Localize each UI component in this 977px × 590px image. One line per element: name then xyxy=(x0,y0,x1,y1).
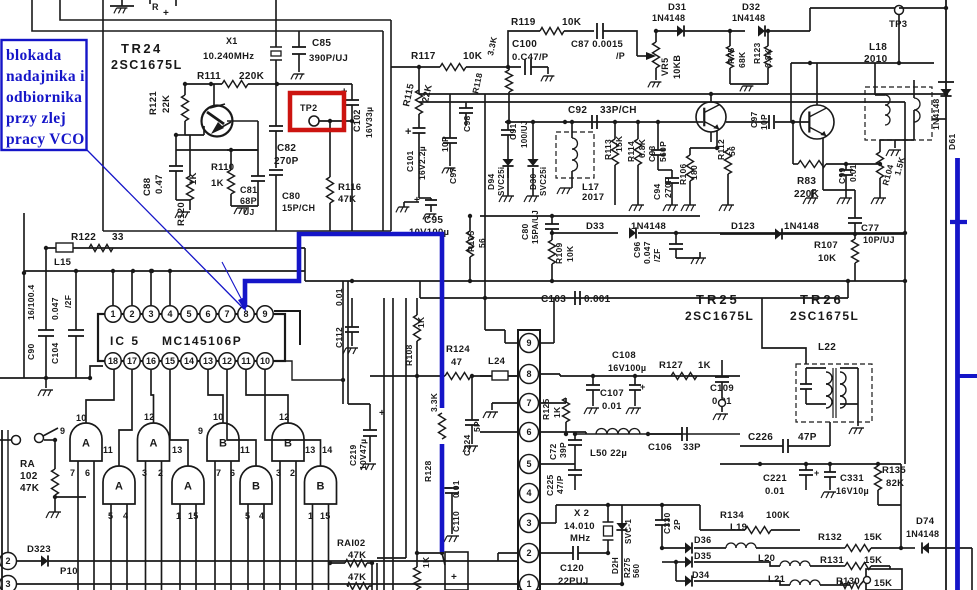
resistor R123 xyxy=(752,31,773,84)
svg-text:39P: 39P xyxy=(558,442,568,458)
wire emitter xyxy=(176,121,258,150)
gate pin labels xyxy=(60,412,333,521)
svg-text:R117: R117 xyxy=(411,51,436,62)
capacitor C100 xyxy=(512,39,549,75)
wire x905 vertical xyxy=(903,102,907,464)
svg-text:TP2: TP2 xyxy=(300,103,317,113)
capacitor C102 xyxy=(341,84,374,231)
IC5 pin 10 xyxy=(257,353,273,369)
ground L22 xyxy=(849,404,864,434)
svg-text:22K: 22K xyxy=(161,95,172,113)
svg-text:68P: 68P xyxy=(240,196,257,206)
svg-text:47: 47 xyxy=(451,357,462,368)
svg-text:D34: D34 xyxy=(692,570,709,580)
IC5 pin 17 xyxy=(124,353,140,369)
wire L22 up xyxy=(762,298,806,364)
capacitor C219 xyxy=(348,404,385,470)
svg-text:/2F: /2F xyxy=(63,295,73,308)
svg-text:18: 18 xyxy=(108,356,118,366)
diode D34 xyxy=(662,560,709,587)
svg-text:10P/UJ: 10P/UJ xyxy=(863,235,895,245)
resistor R130 xyxy=(836,569,902,590)
svg-text:C81: C81 xyxy=(240,185,257,195)
svg-text:2: 2 xyxy=(5,556,10,566)
svg-text:3.3K: 3.3K xyxy=(429,392,439,412)
wire gate2 out xyxy=(151,369,154,423)
wire C77 up xyxy=(822,138,824,190)
wire outer frame A xyxy=(32,0,383,231)
svg-text:9: 9 xyxy=(262,309,267,319)
svg-text:10.240MHz: 10.240MHz xyxy=(203,51,254,62)
connector pin 7 xyxy=(520,394,539,413)
svg-text:3: 3 xyxy=(148,309,153,319)
svg-text:2SC1675L: 2SC1675L xyxy=(111,58,183,72)
svg-text:6: 6 xyxy=(205,309,210,319)
wire bus y584 xyxy=(16,583,518,585)
svg-text:D2H: D2H xyxy=(611,557,620,574)
resistor R110 xyxy=(211,148,235,206)
blue trace pin8 xyxy=(245,234,442,408)
wire gate input bus verticals xyxy=(78,461,329,590)
wire gate7 out xyxy=(227,369,256,466)
inductor L50 xyxy=(590,429,650,459)
capacitor C331 xyxy=(821,464,869,498)
svg-text:15PA/UJ: 15PA/UJ xyxy=(531,210,540,244)
svg-text:L50 22µ: L50 22µ xyxy=(590,448,627,459)
svg-text:11: 11 xyxy=(103,445,113,455)
capacitor C97 10P xyxy=(440,94,458,184)
svg-text:TR26: TR26 xyxy=(800,292,844,307)
wire x420 vertical xyxy=(419,281,421,298)
svg-text:8: 8 xyxy=(243,309,248,319)
crystal X2 xyxy=(564,505,614,553)
svg-text:4: 4 xyxy=(167,309,172,319)
svg-text:1N4148: 1N4148 xyxy=(906,529,939,539)
connector pin 5 xyxy=(520,455,539,474)
diode D123 xyxy=(731,221,819,240)
svg-text:15P/CH: 15P/CH xyxy=(282,203,315,213)
svg-text:9: 9 xyxy=(526,338,531,348)
capacitor C96 xyxy=(632,231,683,264)
capacitor C106 xyxy=(648,427,701,453)
potentiometer VR5 xyxy=(637,31,682,87)
svg-text:IC 5: IC 5 xyxy=(110,334,140,348)
wire x890 vertical xyxy=(889,566,891,569)
svg-text:13: 13 xyxy=(172,445,183,455)
svg-text:7: 7 xyxy=(224,309,229,319)
svg-text:SVC-1: SVC-1 xyxy=(624,519,633,544)
IC5 pin 8 xyxy=(238,306,254,322)
wire bus y271 xyxy=(24,269,305,273)
svg-text:pracy VCO: pracy VCO xyxy=(6,131,85,148)
capacitor C99 xyxy=(837,162,858,204)
capacitor C80b xyxy=(520,210,559,244)
IC5 pin 2 xyxy=(124,306,140,322)
svg-text:16V33µ: 16V33µ xyxy=(364,107,374,138)
capacitor C90 xyxy=(26,248,54,378)
diode D74 xyxy=(901,516,972,590)
capacitor electrolytic bottom xyxy=(442,552,468,590)
svg-text:15: 15 xyxy=(188,511,199,521)
ground R110 C81 xyxy=(231,206,258,214)
svg-text:D35: D35 xyxy=(694,551,711,561)
svg-text:C104: C104 xyxy=(50,342,60,364)
svg-text:TR25: TR25 xyxy=(696,292,740,307)
svg-text:10: 10 xyxy=(213,412,224,422)
svg-text:R111: R111 xyxy=(197,71,221,82)
wire y378 xyxy=(0,366,103,380)
capacitor C120 xyxy=(540,546,610,587)
capacitor C330 xyxy=(655,503,682,548)
resistor R108 xyxy=(404,298,426,553)
ground C90 C104 xyxy=(38,378,53,396)
svg-text:C97: C97 xyxy=(749,112,759,129)
wire pin10 right xyxy=(274,361,345,382)
resistor R114 xyxy=(626,120,647,211)
svg-text:D36: D36 xyxy=(694,535,711,545)
svg-text:0.01: 0.01 xyxy=(848,164,858,182)
svg-text:+: + xyxy=(814,468,820,478)
capacitor C226 xyxy=(740,422,830,453)
svg-text:1: 1 xyxy=(110,309,115,319)
svg-text:0.047: 0.047 xyxy=(642,241,652,264)
svg-text:R83: R83 xyxy=(797,176,816,187)
gate B7 bottom-row xyxy=(240,466,272,504)
transistor TR25 Q xyxy=(690,92,726,148)
resistor R128 xyxy=(423,374,446,482)
capacitor C95 xyxy=(396,195,449,238)
wire pin3 up xyxy=(149,269,172,306)
wire R119 rail xyxy=(508,31,594,67)
capacitor C98 xyxy=(459,102,473,132)
capacitor C110 xyxy=(442,480,461,542)
svg-text:7: 7 xyxy=(70,468,75,478)
svg-text:2P: 2P xyxy=(672,519,682,530)
svg-text:0.047: 0.047 xyxy=(50,297,60,320)
svg-text:11: 11 xyxy=(240,445,250,455)
svg-text:R127: R127 xyxy=(659,360,683,371)
label TR24 xyxy=(111,41,183,72)
resistor 1K bottom xyxy=(414,551,445,590)
capacitor C109 xyxy=(710,360,734,420)
svg-text:R: R xyxy=(152,2,159,12)
svg-text:33P/CH: 33P/CH xyxy=(600,105,637,116)
capacitor C9710P xyxy=(726,63,809,130)
transistor TR24 Q xyxy=(202,84,259,137)
svg-text:P10: P10 xyxy=(60,566,78,577)
wire D32 up xyxy=(810,8,899,31)
wire pin2 stub left xyxy=(498,553,518,561)
svg-text:nadajnika i: nadajnika i xyxy=(6,68,85,85)
label P10 xyxy=(60,566,78,577)
svg-text:15K: 15K xyxy=(874,578,892,589)
label IC5 xyxy=(110,334,242,348)
svg-text:+: + xyxy=(414,195,420,206)
diode D31 xyxy=(652,2,745,37)
inductor L15 xyxy=(54,243,73,268)
wire pin6 stub left xyxy=(480,431,518,433)
svg-text:A: A xyxy=(184,481,192,493)
svg-text:0.47: 0.47 xyxy=(154,174,165,194)
svg-text:560: 560 xyxy=(632,564,641,578)
svg-text:C96: C96 xyxy=(632,242,642,259)
svg-text:7: 7 xyxy=(216,468,221,478)
capacitor C108 xyxy=(608,350,646,414)
wire pin7 stub xyxy=(483,403,518,418)
svg-text:R131: R131 xyxy=(820,555,844,566)
svg-text:2: 2 xyxy=(290,468,295,478)
IC5 pin 16 xyxy=(143,353,159,369)
resistor R135 xyxy=(875,464,907,505)
svg-text:L22: L22 xyxy=(818,342,836,353)
capacitor C221 xyxy=(763,464,820,497)
resistor R113 xyxy=(603,120,624,205)
svg-text:0.001: 0.001 xyxy=(584,294,611,305)
svg-text:R122: R122 xyxy=(71,232,96,243)
resistor R131 xyxy=(820,555,890,570)
gate A2 top-row xyxy=(138,423,170,461)
capacitor C112 xyxy=(334,288,359,354)
ground C95 xyxy=(423,214,437,219)
svg-text:3: 3 xyxy=(5,579,10,589)
capacitor C93 xyxy=(647,120,668,170)
svg-text:C224: C224 xyxy=(462,434,472,456)
svg-text:L21: L21 xyxy=(768,574,786,585)
svg-text:R107: R107 xyxy=(814,240,838,251)
svg-text:10: 10 xyxy=(76,413,87,423)
svg-text:RA: RA xyxy=(20,459,35,470)
resistor R124 xyxy=(370,344,518,380)
label TR25 xyxy=(685,292,754,323)
svg-text:C330: C330 xyxy=(662,512,672,534)
svg-text:12: 12 xyxy=(222,356,232,366)
svg-text:47/P: 47/P xyxy=(555,475,565,494)
wire RA right xyxy=(55,496,86,498)
svg-text:3: 3 xyxy=(142,468,147,478)
ground top edge xyxy=(110,0,134,13)
svg-text:A: A xyxy=(115,481,123,493)
svg-text:D94: D94 xyxy=(486,174,496,191)
svg-text:33: 33 xyxy=(112,232,124,243)
svg-text:C108: C108 xyxy=(612,350,636,361)
label TR26 xyxy=(790,292,859,323)
gate A6 bottom-row xyxy=(172,466,204,504)
red box TP2 xyxy=(290,93,344,130)
test point TP2 xyxy=(300,103,352,126)
capacitor C88 xyxy=(142,133,185,200)
crystal X1 xyxy=(203,0,282,84)
svg-text:4: 4 xyxy=(526,488,531,498)
svg-text:C219: C219 xyxy=(348,444,358,466)
svg-text:2SC1675L: 2SC1675L xyxy=(790,309,859,323)
svg-text:B: B xyxy=(252,481,260,493)
svg-text:10K: 10K xyxy=(565,245,575,262)
wire x24 vertical xyxy=(22,213,26,378)
capacitor C104b xyxy=(50,269,84,378)
svg-text:/ZF: /ZF xyxy=(652,248,662,262)
svg-text:1N4148: 1N4148 xyxy=(652,13,685,23)
svg-text:TR24: TR24 xyxy=(121,41,163,56)
svg-text:10K: 10K xyxy=(818,253,836,264)
svg-text:C106: C106 xyxy=(648,442,672,453)
svg-text:C82: C82 xyxy=(277,143,296,154)
capacitor C224 xyxy=(462,374,482,456)
svg-text:L15: L15 xyxy=(54,257,72,268)
svg-text:D31: D31 xyxy=(668,2,687,13)
wire gate8 out xyxy=(265,369,321,466)
svg-text:0.01: 0.01 xyxy=(765,486,785,497)
wire y464 rail xyxy=(720,462,901,466)
IC5 pin 12 xyxy=(219,353,235,369)
svg-text:C80: C80 xyxy=(282,191,300,202)
svg-text:9: 9 xyxy=(198,426,203,436)
inductor L21 xyxy=(694,574,850,585)
resistor R111 xyxy=(183,71,352,88)
inductor L22 xyxy=(796,342,872,422)
ground C100 xyxy=(541,67,555,81)
wire y505 rail xyxy=(608,504,700,506)
IC5 pin 14 xyxy=(181,353,197,369)
svg-text:A: A xyxy=(82,438,90,450)
svg-text:220K: 220K xyxy=(239,71,265,82)
svg-text:2: 2 xyxy=(158,468,163,478)
svg-text:13: 13 xyxy=(305,445,316,455)
connector pin 4 xyxy=(520,484,539,503)
svg-text:68K: 68K xyxy=(737,51,747,68)
capacitor C87 xyxy=(571,23,637,61)
connector pin 6 xyxy=(520,423,539,442)
inductor L20 xyxy=(694,553,840,566)
svg-text:R119: R119 xyxy=(511,17,536,28)
wire bus y102 xyxy=(419,101,905,103)
svg-text:C85: C85 xyxy=(312,38,331,49)
svg-text:16: 16 xyxy=(146,356,156,366)
wire rail y233 xyxy=(552,232,618,234)
svg-text:1K: 1K xyxy=(421,556,431,568)
svg-text:X1: X1 xyxy=(226,36,238,46)
svg-text:2SC1675L: 2SC1675L xyxy=(685,309,754,323)
wire pin6 right rail xyxy=(540,432,740,434)
diode D33 xyxy=(586,221,905,239)
svg-text:C331: C331 xyxy=(840,473,864,484)
IC5 pin 7 xyxy=(219,306,235,322)
svg-text:14: 14 xyxy=(184,356,194,366)
wire shield left xyxy=(103,0,391,231)
resistor R117 xyxy=(391,51,521,71)
svg-text:10K: 10K xyxy=(463,51,483,62)
wire bus y561 xyxy=(16,560,518,562)
svg-text:C94: C94 xyxy=(652,184,662,201)
blue trace right xyxy=(950,158,977,590)
svg-text:102: 102 xyxy=(20,471,38,482)
wire gate3 out xyxy=(208,369,223,423)
svg-text:14.010: 14.010 xyxy=(564,521,595,532)
svg-text:82K: 82K xyxy=(886,478,904,489)
wire x485 vertical xyxy=(484,94,486,298)
svg-text:+: + xyxy=(405,126,412,138)
test point TP3 xyxy=(889,6,946,64)
wire bus y94 xyxy=(419,93,946,95)
svg-text:D323: D323 xyxy=(27,544,51,555)
resistor R125 xyxy=(540,398,570,436)
svg-text:RAI02: RAI02 xyxy=(337,538,365,549)
svg-text:L18: L18 xyxy=(869,42,887,53)
svg-text:1K: 1K xyxy=(552,406,562,418)
resistor RA102b xyxy=(328,538,377,590)
ground TR24 xyxy=(175,200,190,218)
resistor R105 xyxy=(466,214,487,281)
resistor R107 xyxy=(814,232,859,281)
svg-text:+: + xyxy=(451,572,457,583)
svg-text:+: + xyxy=(163,8,169,19)
svg-text:14: 14 xyxy=(322,445,333,455)
svg-text:SVC25i: SVC25i xyxy=(497,167,506,196)
svg-text:5: 5 xyxy=(526,459,531,469)
svg-text:2: 2 xyxy=(129,309,134,319)
svg-text:15: 15 xyxy=(165,356,175,366)
partial top component xyxy=(150,0,176,19)
svg-text:12: 12 xyxy=(144,412,155,422)
connector J body xyxy=(518,330,540,590)
svg-text:C91: C91 xyxy=(508,124,518,141)
varactor D2H xyxy=(540,505,641,586)
svg-text:13: 13 xyxy=(203,356,213,366)
resistor R127 xyxy=(659,360,711,380)
svg-text:C80: C80 xyxy=(520,224,530,241)
resistor R132 xyxy=(818,532,903,552)
wire bus y298 xyxy=(420,279,850,298)
capacitor C101 xyxy=(405,124,427,198)
resistor R122 xyxy=(71,232,124,252)
svg-text:1N4148: 1N4148 xyxy=(784,221,819,232)
resistor R121 xyxy=(148,84,204,135)
capacitor C72 xyxy=(548,432,582,464)
svg-text:22PUJ: 22PUJ xyxy=(558,576,589,587)
ground RA102 xyxy=(46,510,61,518)
wire x901 vertical xyxy=(900,464,902,548)
wire rail y216 xyxy=(480,215,700,217)
resistor R134 xyxy=(700,505,800,534)
wire gate1 out xyxy=(86,369,114,423)
svg-text:blokada: blokada xyxy=(6,47,62,64)
svg-text:C226: C226 xyxy=(748,432,773,443)
svg-text:33P: 33P xyxy=(683,442,701,453)
diode D35 xyxy=(676,551,711,568)
IC IC5 body xyxy=(98,314,285,361)
wire gate4 out xyxy=(246,369,288,423)
svg-text:MHz: MHz xyxy=(570,533,590,544)
ground R83 xyxy=(803,190,818,204)
resistor R83 xyxy=(791,120,846,200)
svg-text:C221: C221 xyxy=(763,473,787,484)
IC5 pin 9 xyxy=(257,306,273,322)
svg-text:8: 8 xyxy=(526,369,531,379)
capacitor C92 xyxy=(563,105,637,129)
svg-text:C225: C225 xyxy=(545,474,555,496)
svg-text:47K: 47K xyxy=(20,483,40,494)
svg-text:L19: L19 xyxy=(730,522,747,533)
svg-text:B: B xyxy=(219,438,227,450)
svg-text:7: 7 xyxy=(526,398,531,408)
wire rail y234 xyxy=(720,233,905,235)
blue callout box xyxy=(2,40,87,150)
wire rail y63 xyxy=(791,61,934,65)
svg-text:odbiornika: odbiornika xyxy=(6,89,82,106)
wire bus y281 xyxy=(305,279,905,283)
blue annotation line xyxy=(87,150,246,312)
svg-text:100K: 100K xyxy=(766,510,790,521)
diode D323 xyxy=(16,544,51,567)
